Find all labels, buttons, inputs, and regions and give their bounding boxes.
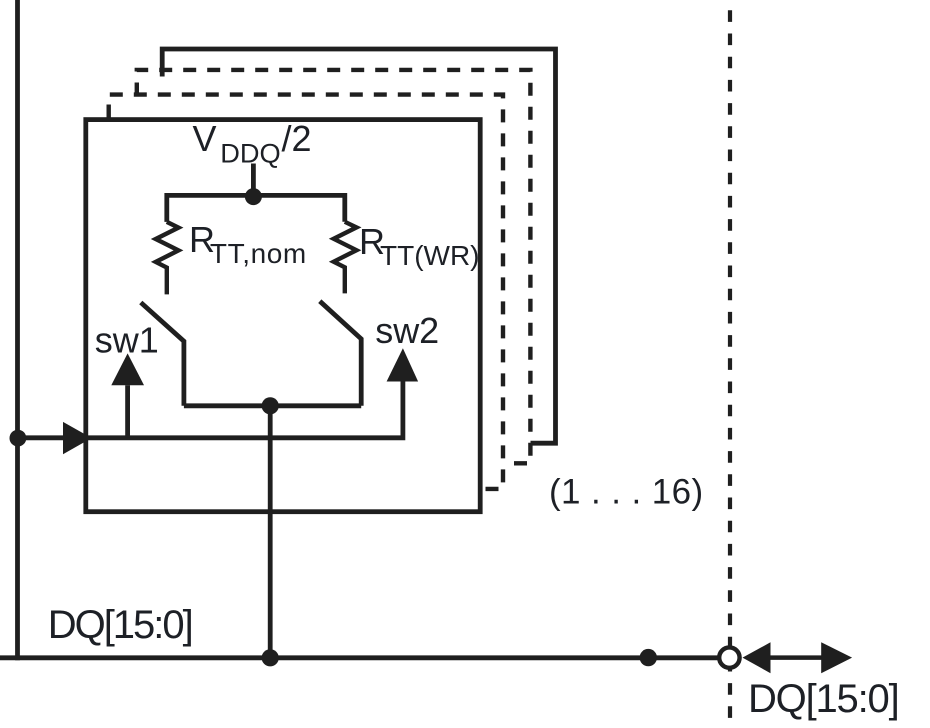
wire node to DQ bus: [268, 406, 273, 658]
svg-text:DQ[15:0]: DQ[15:0]: [48, 603, 192, 647]
wire VDDQ/2 stub: [251, 164, 256, 198]
wire switch common (bottom inside box): [184, 403, 361, 408]
svg-text:(1 . . . 16): (1 . . . 16): [549, 473, 704, 512]
wire bidirectional arrow shaft: [769, 655, 823, 660]
svg-text:DQ[15:0]: DQ[15:0]: [748, 677, 898, 721]
wire top rail: [167, 195, 345, 222]
arrow sw1 control shaft: [125, 385, 130, 438]
instance box (dashed, inner): [109, 95, 503, 489]
instance box (dashed, middle): [137, 70, 531, 463]
junction node (switch common): [262, 397, 279, 414]
arrowhead sw1 control: [111, 353, 144, 385]
wire DQ[15:0] bus (bottom horizontal): [0, 655, 718, 660]
resistor RTT,nom: [156, 222, 179, 295]
arrowhead ODT enable into box: [63, 422, 92, 454]
arrowhead bidirectional left: [743, 642, 771, 673]
instance box 1 (main ODT cell): [86, 120, 480, 512]
pad node (open circle on DQ bus): [719, 647, 739, 667]
switch sw1 blade: [141, 303, 184, 406]
junction node (DQ bus right): [640, 649, 657, 666]
wire DQ enable net (left vertical): [15, 0, 20, 660]
arrowhead bidirectional right: [821, 642, 852, 673]
svg-text:sw1: sw1: [95, 320, 159, 361]
svg-text:sw2: sw2: [375, 310, 439, 351]
junction node (DQ bus tap): [262, 649, 279, 666]
resistor RTT(WR): [334, 222, 357, 294]
junction node (enable tap, left wire): [10, 430, 27, 447]
arrowhead sw2 control: [387, 348, 419, 381]
wire ODT enable horizontal: [18, 382, 403, 438]
switch sw2 blade: [320, 301, 361, 406]
instance box 16 (solid, back): [162, 49, 555, 443]
junction node (VDDQ/2 rail): [245, 188, 262, 205]
boundary dashed line (device edge): [728, 0, 732, 723]
